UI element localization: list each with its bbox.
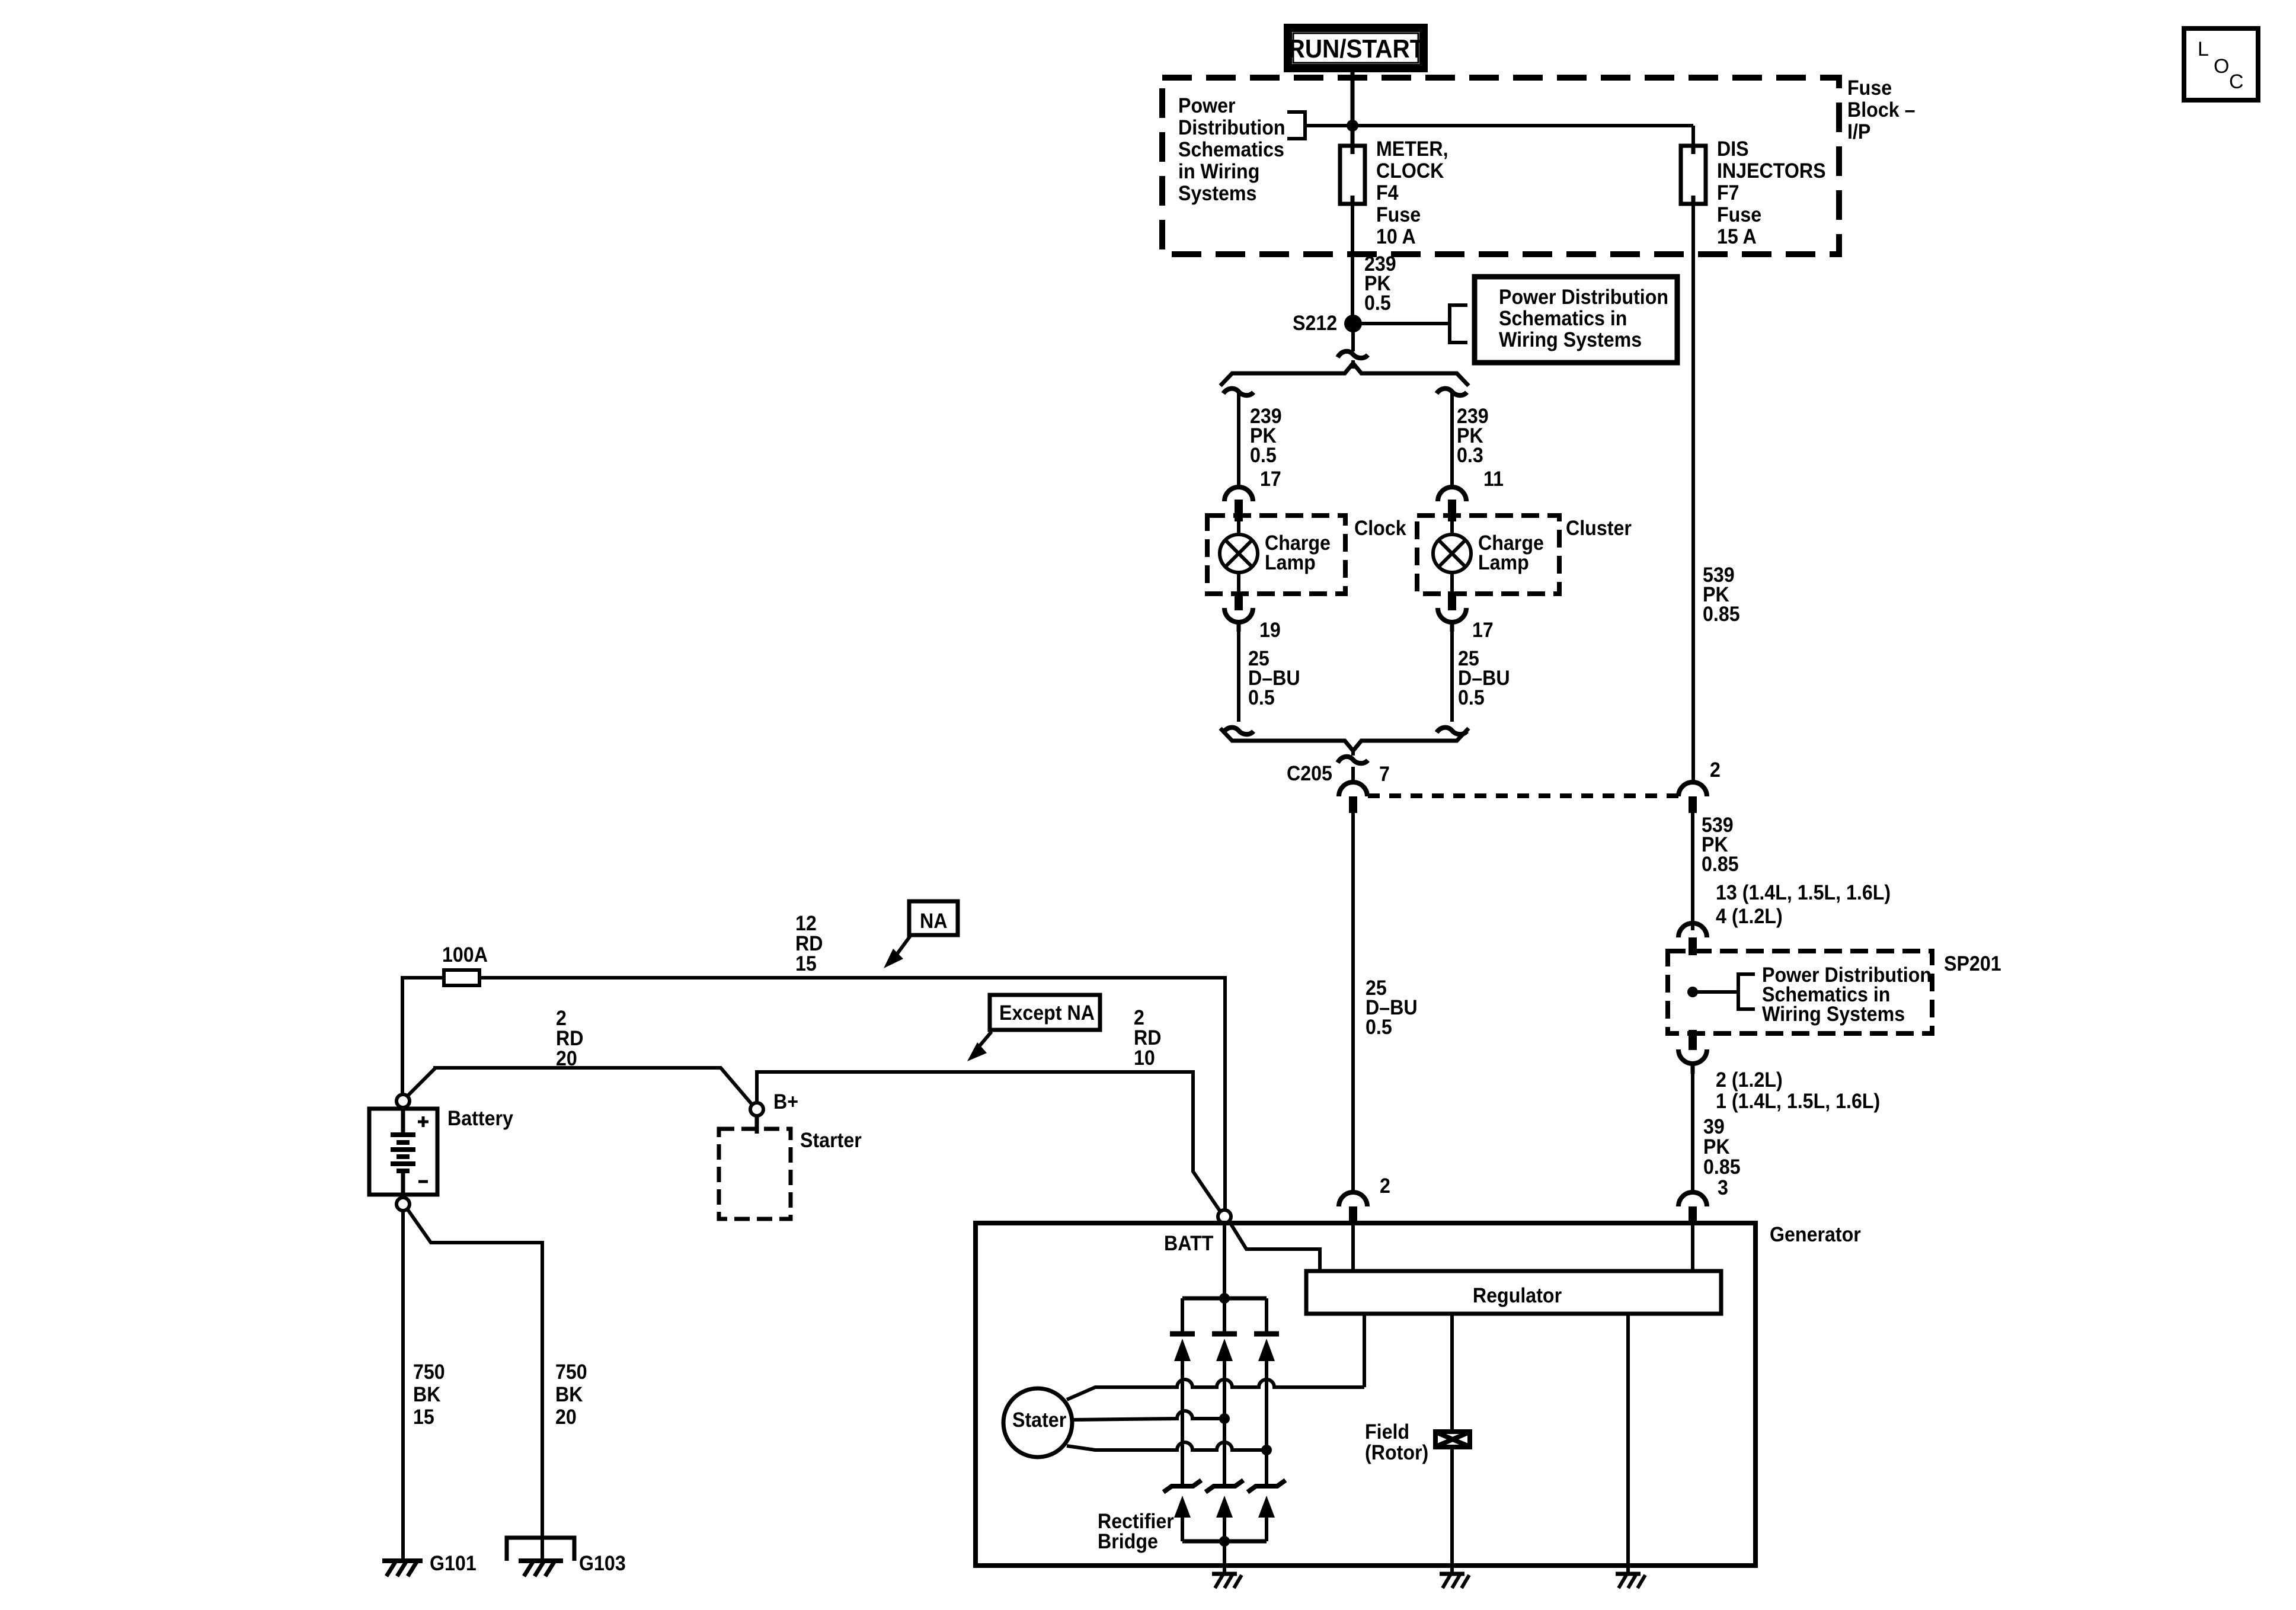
connector C205 dotted line: [1368, 793, 1686, 798]
svg-text:Stater: Stater: [1012, 1409, 1066, 1432]
svg-text:G101: G101: [430, 1553, 477, 1576]
connector cup below right lamp: [1438, 608, 1466, 622]
wire F7 drop: [1691, 126, 1695, 146]
diode triangles lower: [1174, 1496, 1191, 1518]
svg-text:2: 2: [1710, 759, 1721, 782]
svg-text:Starter: Starter: [800, 1129, 862, 1153]
svg-text:2: 2: [1380, 1175, 1390, 1198]
arrowhead NA: [884, 949, 903, 968]
wire battery to G103: [407, 1209, 542, 1561]
connector stub generator pin 3: [1689, 1206, 1697, 1223]
node RUN/START box: [1288, 28, 1424, 68]
node Starter dashed box: [719, 1129, 791, 1219]
svg-text:NA: NA: [920, 910, 947, 933]
connector stub left lamp bottom: [1235, 591, 1243, 610]
svg-text:RUN/START: RUN/START: [1288, 34, 1425, 63]
wire below left lamp: [1237, 632, 1240, 722]
arrow NA: [896, 935, 911, 955]
wire 12 RD 15: [479, 978, 1225, 1210]
svg-text:L: L: [2198, 38, 2209, 60]
connector arc pin 2 (C205 right): [1678, 782, 1707, 796]
wire pin2 to SP201: [1691, 813, 1694, 930]
wire regulator to ground: [1626, 1314, 1630, 1561]
wire SP201 junction to bracket: [1693, 990, 1738, 994]
wire regulator to field: [1450, 1314, 1454, 1429]
diode zener bars lower: [1163, 1480, 1285, 1492]
wire bus inside fuse block: [1305, 124, 1693, 127]
svg-text:3: 3: [1718, 1177, 1728, 1200]
connector arc generator pin 2: [1339, 1192, 1367, 1206]
node SP201 dashed box: [1668, 951, 1932, 1033]
stator circle: [1003, 1388, 1072, 1457]
battery minus sign: [418, 1180, 428, 1183]
diode cathode bars upper: [1170, 1331, 1279, 1337]
wire S212 down: [1351, 331, 1355, 351]
connector stub C205 pin2: [1689, 796, 1697, 813]
wire stator line B: [1072, 1411, 1224, 1420]
rectifier verticals: [1181, 1298, 1184, 1541]
wire top brace: [1220, 363, 1469, 386]
wire 2 RD 10: [757, 1072, 1221, 1212]
node Clock dashed box: [1207, 516, 1345, 594]
battery box: [369, 1109, 437, 1195]
wire F7 down to C205 pin2: [1691, 204, 1695, 783]
bracket SP201 text: [1738, 974, 1755, 1009]
svg-text:11: 11: [1483, 468, 1504, 491]
wire regulator to stator line A: [1363, 1314, 1366, 1387]
ground G103 bracket: [507, 1538, 574, 1561]
connector arc above right lamp: [1438, 487, 1466, 501]
ground field: [1440, 1572, 1464, 1576]
wire bottom brace: [1220, 728, 1469, 751]
svg-text:Regulator: Regulator: [1473, 1285, 1562, 1308]
connector cup below left lamp: [1224, 608, 1253, 622]
battery plus sign: [418, 1116, 428, 1127]
node SP201 junction dot: [1687, 987, 1698, 997]
connector stub above SP201: [1689, 937, 1697, 955]
svg-text:S212: S212: [1293, 312, 1337, 335]
node S212 junction dot: [1344, 315, 1362, 332]
node battery plus terminal: [396, 1094, 410, 1108]
svg-text:4 (1.2L): 4 (1.2L): [1716, 905, 1783, 929]
wire stator line A: [1067, 1379, 1364, 1400]
node BATT terminal: [1218, 1210, 1231, 1223]
svg-text:Battery: Battery: [447, 1108, 513, 1131]
svg-text:C: C: [2229, 71, 2244, 93]
fuse 100A: [444, 970, 479, 985]
svg-text:B+: B+: [773, 1091, 798, 1114]
lamp Charge Lamp (Clock): [1220, 534, 1258, 572]
svg-text:BATT: BATT: [1164, 1233, 1214, 1256]
node B+ terminal: [750, 1103, 763, 1116]
wire break left branch top: [1223, 389, 1253, 396]
fuse block I/P dashed box: [1162, 78, 1839, 254]
svg-text:100A: 100A: [442, 944, 488, 967]
connector stub left lamp top: [1235, 500, 1243, 521]
wire below right lamp: [1450, 632, 1454, 722]
node Power Distribution Schematics box: [1475, 277, 1677, 363]
wire S212 to brace: [1351, 360, 1355, 369]
svg-text:C205: C205: [1287, 763, 1332, 786]
connector stub C205 pin7: [1349, 796, 1357, 813]
ground generator middle: [1212, 1574, 1645, 1588]
wire left branch: [1237, 391, 1240, 488]
rectifier bridge rails: [1182, 1298, 1267, 1541]
arrow Except NA: [979, 1032, 992, 1046]
svg-text:1 (1.4L, 1.5L, 1.6L): 1 (1.4L, 1.5L, 1.6L): [1716, 1090, 1880, 1113]
wire break left branch bottom: [1223, 728, 1253, 735]
bracket to Power Distribution box: [1450, 305, 1467, 343]
svg-text:Generator: Generator: [1770, 1224, 1861, 1247]
svg-text:13 (1.4L, 1.5L, 1.6L): 13 (1.4L, 1.5L, 1.6L): [1716, 882, 1891, 905]
svg-text:G103: G103: [579, 1553, 626, 1576]
node junction dots rectifier: [1219, 1293, 1230, 1304]
svg-text:Except NA: Except NA: [999, 1002, 1095, 1025]
wire pin2 to regulator: [1351, 1223, 1355, 1271]
wire C205 to generator pin 2: [1351, 813, 1355, 1192]
connector stub right lamp top: [1448, 500, 1456, 521]
connector arc generator pin 3: [1678, 1192, 1707, 1206]
svg-text:7: 7: [1379, 763, 1390, 786]
diode triangles upper: [1174, 1339, 1191, 1361]
wire battery to 100A fuse corner: [402, 978, 444, 1094]
wire break right branch bottom: [1437, 728, 1467, 735]
wire S212 to box bracket: [1353, 322, 1448, 325]
field coil symbol: [1433, 1429, 1472, 1449]
regulator box: [1306, 1271, 1721, 1314]
svg-text:Cluster: Cluster: [1566, 517, 1632, 540]
svg-text:19: 19: [1259, 619, 1281, 642]
node LOC box: [2184, 28, 2258, 100]
connector cup below SP201: [1678, 1049, 1707, 1064]
connector C205 break: [1338, 757, 1368, 763]
node Cluster dashed box: [1417, 516, 1559, 594]
wire 2 RD 20: [407, 1068, 752, 1105]
wire stator line C: [1067, 1442, 1267, 1450]
connector C205 arc pin 7: [1339, 782, 1367, 796]
wire break under S212: [1338, 351, 1368, 358]
wire F4 to S212: [1351, 204, 1354, 316]
wire RUN/START to fuse block: [1351, 72, 1355, 146]
svg-text:17: 17: [1472, 619, 1494, 642]
connector arc above left lamp: [1224, 487, 1253, 501]
wire field to ground: [1450, 1449, 1454, 1561]
fuse F4: [1340, 146, 1365, 204]
wire break right branch top: [1437, 389, 1467, 396]
connector stub generator pin 2: [1349, 1206, 1357, 1223]
svg-text:O: O: [2214, 55, 2229, 78]
connector stub right lamp bottom: [1448, 591, 1456, 610]
ground regulator right: [1616, 1572, 1641, 1576]
arrowhead Except NA: [967, 1042, 987, 1061]
svg-text:17: 17: [1260, 468, 1281, 491]
svg-text:2 (1.2L): 2 (1.2L): [1716, 1069, 1783, 1092]
wire battery to G101: [401, 1211, 405, 1561]
node NA box: [909, 901, 958, 935]
node battery minus terminal: [396, 1198, 410, 1211]
wire right branch: [1450, 391, 1454, 488]
generator box: [976, 1223, 1755, 1566]
fuse F7: [1681, 146, 1706, 204]
connector arc above SP201: [1678, 923, 1707, 937]
ground G101: [382, 1558, 423, 1563]
wire pin3 to regulator: [1691, 1223, 1694, 1271]
wire SP201 to generator pin 3: [1691, 1074, 1694, 1192]
wire BATT diagonal to regulator: [1229, 1221, 1320, 1271]
bracket to Power Distribution text (fuse block): [1287, 112, 1305, 139]
battery plates: [391, 1135, 415, 1171]
battery internal stubs: [401, 1109, 405, 1195]
svg-text:Clock: Clock: [1354, 517, 1406, 540]
wire B+ into starter: [755, 1116, 759, 1134]
wire middle ground stub: [1452, 1561, 1628, 1574]
lamp Charge Lamp (Cluster): [1433, 534, 1471, 572]
node Except NA box: [990, 995, 1100, 1030]
lamp wire stubs: [1239, 521, 1452, 593]
ground G103: [519, 1558, 563, 1563]
connector stub below SP201: [1689, 1030, 1697, 1050]
svg-text:SP201: SP201: [1944, 953, 2001, 976]
node junction dot fuse block: [1347, 120, 1358, 132]
